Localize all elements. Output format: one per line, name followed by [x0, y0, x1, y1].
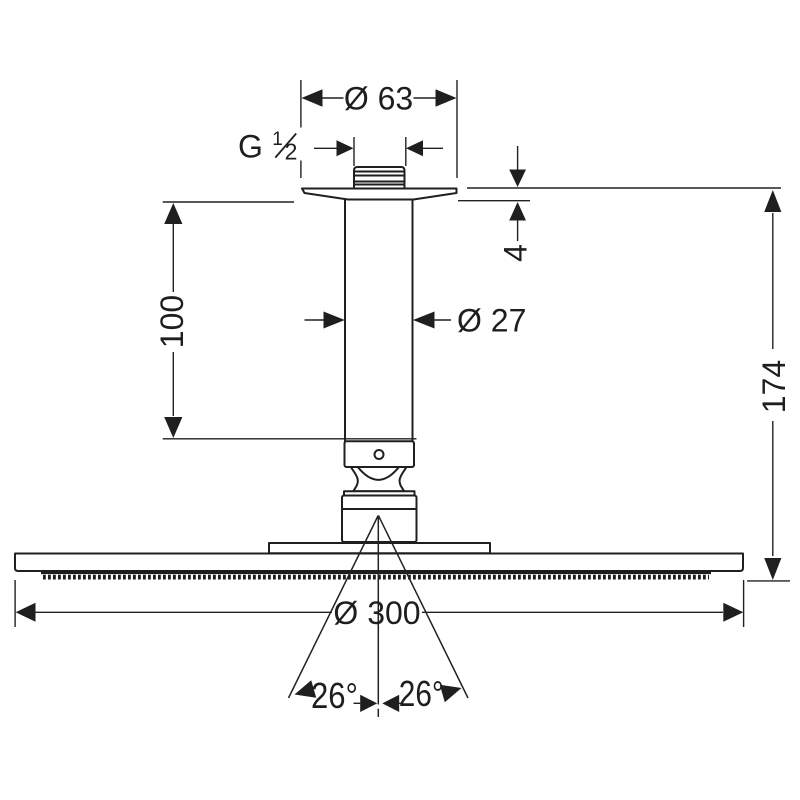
dim100 bottom reference line	[163, 438, 417, 440]
dia63 dimension line	[323, 97, 344, 99]
spray cone left line	[289, 516, 379, 699]
dim4 top reference line	[467, 187, 781, 189]
dia63 extension line right	[456, 80, 458, 178]
svg-text:2: 2	[285, 139, 298, 165]
lower fitting block	[345, 441, 415, 467]
flange ring	[344, 491, 415, 495]
dia300 arrow left	[16, 603, 36, 622]
angle26 bowtie stem right	[396, 702, 402, 704]
dia27 leader right	[435, 319, 452, 321]
dia27 arrow pointing right	[324, 312, 345, 329]
G1/2 fraction slash	[275, 134, 296, 158]
svg-text:G: G	[238, 129, 263, 165]
dim100 top reference line	[163, 201, 294, 203]
dia63 arrow left	[302, 89, 323, 107]
ball joint body	[351, 467, 407, 491]
spray cone right line	[378, 516, 468, 699]
ball arc	[358, 468, 398, 480]
dimensions group	[15, 80, 790, 703]
G1/2 arrow left	[337, 140, 354, 156]
dim4 stem below	[517, 221, 519, 242]
dim4 arrow up	[509, 202, 526, 221]
svg-text:100: 100	[154, 295, 190, 348]
center axis line	[377, 516, 379, 718]
dim100 vertical line	[172, 224, 174, 292]
angle26 bowtie stem left	[354, 702, 361, 704]
G1/2 dimension line right	[423, 147, 443, 149]
arrowheads group	[16, 89, 782, 712]
vertical pipe	[345, 200, 413, 442]
svg-text:Ø 27: Ø 27	[457, 303, 526, 339]
connector block separation line	[342, 508, 417, 510]
outlines group	[15, 167, 743, 571]
threaded connector G1/2	[354, 167, 405, 189]
dim174 arrow up	[764, 190, 781, 212]
nozzle face solid band	[41, 570, 711, 574]
svg-text:Ø 63: Ø 63	[344, 81, 413, 117]
connector block upper	[342, 496, 417, 543]
dia63 arrow right	[436, 89, 457, 107]
dia27 arrow pointing left	[413, 312, 435, 329]
dim100 arrow up	[164, 203, 182, 224]
dim174 vertical line	[772, 213, 774, 349]
dia300 extension line left	[14, 580, 16, 627]
dia300 arrow right	[723, 603, 743, 622]
ceiling escutcheon plate	[302, 189, 457, 200]
svg-text:26°: 26°	[399, 673, 444, 714]
dim4 arrow down	[509, 170, 526, 188]
dia27 leader left	[305, 319, 324, 321]
angle26 bowtie arrow left	[360, 695, 377, 712]
dia300 extension line right	[743, 580, 745, 627]
spray cone group	[289, 516, 469, 718]
labels group	[154, 81, 792, 716]
dia300 dimension line	[36, 611, 333, 613]
angle26 outer arrow right	[440, 685, 462, 702]
dia63 extension line left	[300, 80, 302, 128]
svg-text:1: 1	[272, 129, 283, 150]
G1/2 arrow right	[406, 140, 423, 156]
mounting platform	[269, 543, 490, 553]
G1/2 extension line left	[353, 137, 355, 166]
angle26 outer arrow left	[295, 680, 317, 697]
G1/2 dimension line left	[314, 147, 337, 149]
G1/2 extension line right	[405, 137, 407, 166]
thread ridge lines	[354, 171, 405, 173]
svg-text:Ø 300: Ø 300	[333, 595, 420, 631]
dim4 bottom reference line	[458, 200, 530, 202]
dim174 bottom reference line	[747, 580, 790, 582]
svg-text:4: 4	[498, 244, 534, 262]
dim100 arrow down	[164, 417, 182, 438]
nozzle dashed row	[43, 575, 709, 580]
dim174 arrow down	[764, 558, 781, 580]
dim4 stem above	[517, 146, 519, 170]
angle26 bowtie arrow right	[382, 695, 399, 712]
pivot hole	[375, 450, 384, 459]
shower head plate	[15, 554, 743, 572]
svg-text:174: 174	[756, 360, 792, 413]
svg-text:26°: 26°	[311, 675, 358, 716]
